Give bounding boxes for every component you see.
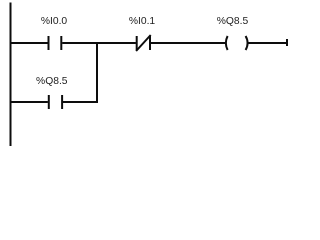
wire contact I0.1 to coil — [151, 42, 227, 44]
svg-text:%I0.0: %I0.0 — [41, 16, 68, 27]
svg-text:%I0.1: %I0.1 — [129, 16, 156, 27]
contact %I0.0 (normally open) — [49, 36, 62, 50]
branch wire rail to contact Q8.5 — [10, 101, 48, 103]
wire rail to contact I0.0 — [10, 42, 48, 44]
contact %I0.1 (normally closed) — [136, 35, 151, 51]
wire contact I0.0 to contact I0.1 — [62, 42, 136, 44]
svg-text:%Q8.5: %Q8.5 — [217, 16, 249, 27]
wire coil to right terminal — [247, 42, 287, 44]
branch wire contact Q8.5 to junction — [63, 101, 98, 103]
left power rail — [10, 3, 12, 147]
svg-text:%Q8.5: %Q8.5 — [36, 76, 68, 87]
contact %Q8.5 (normally open, branch) — [49, 95, 62, 109]
coil %Q8.5 — [226, 36, 248, 50]
branch junction vertical wire — [96, 42, 98, 103]
right terminal tick — [286, 39, 288, 46]
